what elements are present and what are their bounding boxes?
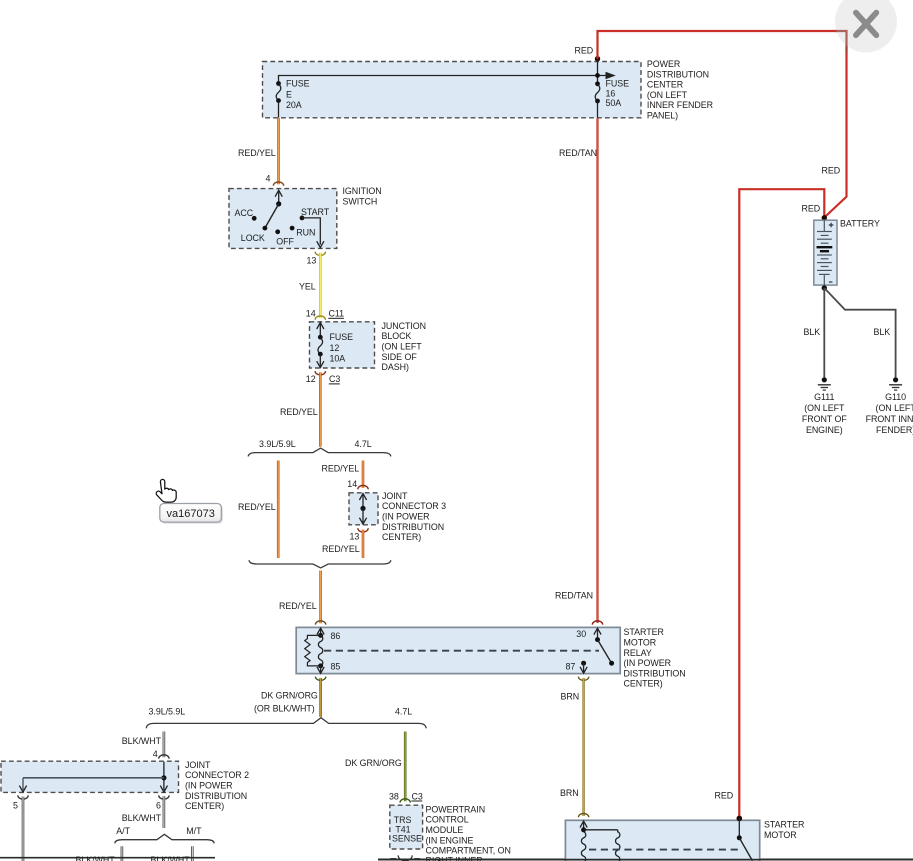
relay internal dashed divider: [324, 650, 599, 652]
svg-text:BLK/WHT: BLK/WHT: [122, 736, 162, 746]
svg-text:SWITCH: SWITCH: [343, 197, 378, 207]
svg-text:RED: RED: [822, 166, 841, 176]
wire: RED from PDC up over to battery positive: [598, 31, 847, 218]
wire: PDC internal bus from fuse E to fuse 16 with arrow: [279, 72, 616, 84]
label: ACC: [235, 208, 254, 218]
svg-text:86: 86: [331, 631, 341, 641]
svg-text:(IN ENGINE: (IN ENGINE: [426, 835, 474, 845]
svg-text:BLK: BLK: [804, 327, 821, 337]
label: BRN (lower): [560, 788, 579, 798]
label: RED/TAN (upper): [559, 148, 597, 158]
svg-text:38: 38: [389, 791, 399, 801]
svg-text:DK GRN/ORG: DK GRN/ORG: [345, 758, 402, 768]
merge brace (branches rejoin): [249, 560, 391, 568]
label: RED (left of battery): [802, 204, 821, 214]
junction block box: [310, 322, 375, 368]
svg-text:BLK/WHT: BLK/WHT: [151, 855, 191, 861]
svg-text:4: 4: [153, 749, 158, 759]
svg-text:IGNITION: IGNITION: [343, 186, 382, 196]
label: RUN: [296, 227, 315, 237]
svg-text:RED/YEL: RED/YEL: [238, 148, 276, 158]
label: BLK/WHT (below pin 6): [122, 813, 162, 823]
svg-text:BRN: BRN: [560, 788, 579, 798]
starter motor box: [565, 820, 759, 861]
ground G111: [802, 377, 847, 435]
pin 14 connector C11 (junction block): [306, 309, 344, 320]
label: IGNITION SWITCH: [343, 186, 382, 206]
svg-text:BLK/WHT: BLK/WHT: [122, 813, 162, 823]
pin 30 connector (starter motor relay): [592, 621, 602, 625]
svg-text:10A: 10A: [330, 354, 346, 364]
svg-text:4.7L: 4.7L: [355, 439, 372, 449]
svg-text:CONNECTOR 2: CONNECTOR 2: [185, 770, 249, 780]
close button: [835, 0, 897, 53]
joint connector 2 internal bus: [19, 762, 167, 792]
pin 5 connector (below joint connector 2): [13, 795, 28, 810]
fuse E 20A: [276, 79, 310, 118]
svg-text:14: 14: [306, 309, 316, 319]
svg-text:(IN POWER: (IN POWER: [185, 781, 232, 791]
svg-text:13: 13: [350, 532, 360, 542]
node: RED wire junction above PDC: [595, 56, 600, 61]
relay pin 85 exit arrow: [317, 666, 324, 673]
relay switch pin 30 to pin 87: [566, 628, 615, 673]
svg-text:85: 85: [331, 662, 341, 672]
svg-text:RED: RED: [715, 791, 734, 801]
wire: DK GRN/ORG relay pin 85 down to split brace: [319, 678, 322, 717]
starter motor contact switch: [737, 818, 753, 861]
pin 4 connector (joint connector 2): [153, 749, 169, 759]
svg-text:CENTER): CENTER): [185, 801, 224, 811]
joint connector 2 box: [1, 761, 179, 792]
svg-text:4.7L: 4.7L: [395, 707, 412, 717]
svg-text:RUN: RUN: [296, 227, 315, 237]
svg-text:FRONT OF: FRONT OF: [802, 414, 847, 424]
svg-text:RED: RED: [575, 46, 594, 56]
svg-text:SIDE OF: SIDE OF: [382, 352, 418, 362]
splice brace (3.9L/5.9L | 4.7L split): [248, 439, 391, 457]
svg-text:RED/YEL: RED/YEL: [238, 502, 276, 512]
svg-text:12: 12: [306, 374, 316, 384]
svg-text:LOCK: LOCK: [241, 233, 265, 243]
svg-text:A/T: A/T: [116, 826, 130, 836]
SEC-A: power distribution center: [263, 46, 713, 121]
label: RED (top of PDC): [575, 46, 594, 56]
ground G110: [866, 377, 913, 435]
svg-text:(ON LEFT: (ON LEFT: [647, 90, 688, 100]
wire: red drop into bus: [597, 59, 599, 84]
svg-text:CENTER): CENTER): [624, 679, 663, 689]
svg-text:G111: G111: [814, 392, 834, 402]
svg-text:BLK: BLK: [874, 327, 891, 337]
svg-text:DISTRIBUTION: DISTRIBUTION: [624, 668, 686, 678]
power distribution center box: [263, 62, 642, 118]
svg-text:(IN POWER: (IN POWER: [382, 512, 429, 522]
label: RED (right vertical): [822, 166, 841, 176]
svg-text:DISTRIBUTION: DISTRIBUTION: [382, 522, 444, 532]
pin 85 connector (below relay): [315, 677, 325, 681]
pin 4 connector (ignition switch): [266, 173, 284, 186]
svg-text:12: 12: [330, 343, 340, 353]
label: BATTERY: [840, 219, 880, 229]
wire: BLK battery to G111: [823, 288, 825, 377]
svg-text:PANEL): PANEL): [647, 111, 678, 121]
splice brace (3.9L/5.9L | 4.7L split below relay): [146, 707, 426, 729]
pin 13 connector (joint connector 3): [350, 528, 369, 541]
battery: [814, 220, 837, 285]
label: JOINT CONNECTOR 2 (IN POWER DISTRIBUTION CENTER): [185, 760, 249, 811]
svg-text:SENSE: SENSE: [392, 834, 422, 844]
svg-text:FENDER): FENDER): [876, 425, 913, 435]
wire: RED/YEL from fuse E to ignition switch: [277, 118, 280, 184]
svg-text:5: 5: [13, 800, 18, 810]
wire: bottom-left horizontal (next section, clipped): [0, 857, 215, 859]
svg-text:(OR BLK/WHT): (OR BLK/WHT): [254, 704, 315, 714]
cursor (hand pointer): [156, 479, 176, 502]
svg-text:FUSE: FUSE: [286, 79, 310, 89]
SEC-D: junction block / joint connector 3 / braces: [238, 309, 446, 624]
svg-text:30: 30: [576, 629, 586, 639]
svg-text:M/T: M/T: [186, 826, 202, 836]
svg-text:RED/YEL: RED/YEL: [322, 544, 360, 554]
svg-text:YEL: YEL: [299, 281, 316, 291]
wire: BRN relay pin 87 down to starter motor: [582, 678, 584, 816]
wire: RED/YEL 3.9L/5.9L branch: [277, 461, 280, 559]
wire: bottom horizontal (next section, clipped): [378, 858, 913, 860]
svg-text:20A: 20A: [286, 100, 302, 110]
svg-text:POWERTRAIN: POWERTRAIN: [426, 804, 486, 814]
svg-text:JOINT: JOINT: [382, 491, 408, 501]
svg-text:(ON LEFT: (ON LEFT: [804, 403, 845, 413]
label: RED (above starter motor): [715, 791, 734, 801]
svg-text:RED/YEL: RED/YEL: [280, 407, 318, 417]
label: RED/YEL: [238, 148, 276, 158]
svg-text:TRS: TRS: [394, 815, 412, 825]
wire: BLK/WHT A/T branch: [121, 846, 124, 861]
svg-text:E: E: [286, 89, 292, 99]
svg-text:RED/YEL: RED/YEL: [322, 463, 360, 473]
label: BLK (right): [874, 327, 891, 337]
label: STARTER MOTOR: [764, 820, 804, 840]
svg-text:50A: 50A: [606, 98, 622, 108]
svg-text:RED/TAN: RED/TAN: [559, 148, 597, 158]
ignition switch mechanism: [252, 190, 324, 247]
wire: RED/YEL 4.7L branch upper: [362, 461, 365, 488]
label: JOINT CONNECTOR 3 (IN POWER DISTRIBUTION CENTER): [382, 491, 446, 542]
svg-text:MOTOR: MOTOR: [624, 638, 657, 648]
svg-text:C11: C11: [329, 309, 345, 319]
label: STARTER MOTOR RELAY (IN POWER DISTRIBUTION CENTER): [624, 627, 686, 689]
label: START: [301, 207, 330, 217]
node: bus / fuse 16 junction: [595, 73, 600, 78]
svg-text:16: 16: [606, 88, 616, 98]
pin 12 connector C3 (junction block): [306, 371, 341, 384]
pin 87 connector (below relay): [578, 677, 588, 681]
SEC-E: starter relay row: [146, 621, 685, 816]
label: LOCK: [241, 233, 265, 243]
svg-text:DK GRN/ORG: DK GRN/ORG: [261, 691, 318, 701]
svg-text:CENTER: CENTER: [647, 80, 683, 90]
label: RED/YEL: [280, 407, 318, 417]
relay coil between pins 86 and 85: [317, 628, 340, 671]
svg-text:BLK/WHT: BLK/WHT: [76, 855, 116, 861]
svg-text:STARTER: STARTER: [764, 820, 804, 830]
SEC-G: PCM and starter motor: [345, 732, 913, 861]
label: RED/YEL (to relay): [279, 601, 317, 611]
node: RED wire at starter motor terminal: [737, 816, 743, 822]
pin 13 connector (ignition switch): [307, 252, 326, 266]
svg-text:13: 13: [307, 255, 317, 265]
label: RED/YEL (left branch): [238, 502, 276, 512]
svg-text:6: 6: [156, 800, 161, 810]
svg-text:MODULE: MODULE: [426, 825, 464, 835]
label: DK GRN/ORG (OR BLK/WHT): [254, 691, 318, 714]
wire: RED from battery positive down to starter motor: [739, 189, 824, 818]
wire: RED/YEL junction block to splice brace: [319, 372, 322, 446]
svg-text:CONTROL: CONTROL: [426, 815, 469, 825]
svg-text:STARTER: STARTER: [624, 627, 664, 637]
powertrain control module box: [390, 805, 423, 849]
svg-text:C3: C3: [329, 374, 340, 384]
wire: RED/YEL 4.7L branch lower: [362, 530, 365, 558]
label: RED/YEL (4.7L lower): [322, 544, 360, 554]
svg-text:4: 4: [266, 173, 271, 183]
svg-text:DISTRIBUTION: DISTRIBUTION: [647, 69, 709, 79]
starter solenoid windings: [580, 821, 620, 861]
label: BLK/WHT: [122, 736, 162, 746]
SEC-F: bottom left joint connector 2: [0, 732, 249, 861]
svg-text:FUSE: FUSE: [330, 332, 354, 342]
svg-text:BLOCK: BLOCK: [382, 331, 412, 341]
wire: BLK/WHT from pin 5 down: [22, 797, 25, 861]
ignition switch box: [229, 189, 337, 249]
svg-text:CENTER): CENTER): [382, 532, 421, 542]
wire: BLK/WHT from pin 6 to A/T-M/T brace: [163, 796, 166, 828]
svg-text:POWER: POWER: [647, 59, 680, 69]
tooltip va167073: [160, 504, 223, 524]
label: OFF: [276, 236, 294, 246]
svg-text:(IN POWER: (IN POWER: [624, 658, 671, 668]
label: POWER DISTRIBUTION CENTER (ON LEFT INNER FENDER PANEL): [647, 59, 713, 121]
label: RED/YEL (4.7L upper): [322, 463, 360, 473]
wire: bottom horizontal overlay (next section, clipped): [378, 859, 913, 861]
wire: DK GRN/ORG 4.7L branch to PCM: [404, 732, 407, 802]
svg-text:DASH): DASH): [382, 362, 409, 372]
node: battery positive: [822, 215, 827, 220]
svg-text:INNER FENDER: INNER FENDER: [647, 100, 713, 110]
svg-text:14: 14: [347, 479, 357, 489]
svg-text:BRN: BRN: [561, 692, 580, 702]
fuse 12 10A inside junction block: [317, 323, 353, 368]
label: YEL: [299, 281, 316, 291]
label: BLK/WHT (clipped at bottom, M/T): [151, 855, 191, 861]
splice brace (A/T | M/T split): [115, 826, 214, 843]
svg-text:(ON LEFT: (ON LEFT: [382, 342, 423, 352]
SEC-C: ignition switch column: [229, 118, 598, 623]
wire: BLK/WHT M/T branch: [191, 846, 194, 861]
svg-text:RED/TAN: RED/TAN: [555, 591, 593, 601]
ground connector below PCM (clipped): [390, 855, 420, 861]
starter motor relay box: [296, 627, 620, 673]
svg-text:87: 87: [566, 662, 576, 672]
svg-text:FRONT INNER: FRONT INNER: [866, 414, 913, 424]
label: RED/TAN (lower): [555, 591, 593, 601]
fuse 16 50A: [595, 79, 629, 118]
pin 86 connector (starter motor relay): [315, 621, 325, 625]
svg-text:3.9L/5.9L: 3.9L/5.9L: [259, 439, 296, 449]
label: BRN (upper): [561, 692, 580, 702]
svg-text:OFF: OFF: [276, 236, 294, 246]
pin 38 connector C3 (PCM): [389, 791, 423, 802]
svg-text:BATTERY: BATTERY: [840, 219, 880, 229]
node: fuse E top junction: [276, 81, 281, 86]
wire: YEL ignition to junction block: [319, 253, 322, 318]
svg-text:COMPARTMENT, ON: COMPARTMENT, ON: [426, 846, 511, 856]
wire: RED/TAN from fuse 16 to starter relay pin 30: [596, 118, 598, 623]
SEC-B: red battery feed wires, close button, battery, grounds: [598, 0, 913, 818]
svg-text:C3: C3: [412, 791, 423, 801]
svg-text:3.9L/5.9L: 3.9L/5.9L: [149, 707, 186, 717]
relay resistor (parallel with coil): [305, 635, 321, 666]
wire: RED/YEL splice to starter relay pin 86: [319, 571, 322, 624]
svg-text:RED/YEL: RED/YEL: [279, 601, 317, 611]
svg-text:MOTOR: MOTOR: [764, 830, 797, 840]
label: TRS T41 SENSE (PCM pin): [392, 815, 422, 843]
svg-text:JUNCTION: JUNCTION: [382, 321, 427, 331]
svg-text:ACC: ACC: [235, 208, 254, 218]
svg-text:JOINT: JOINT: [185, 760, 211, 770]
svg-text:START: START: [301, 207, 330, 217]
starter motor internal dashed divider: [589, 849, 742, 851]
label: JUNCTION BLOCK (ON LEFT SIDE OF DASH): [382, 321, 427, 372]
label: BLK (left): [804, 327, 821, 337]
svg-text:G110: G110: [885, 392, 906, 402]
svg-text:FUSE: FUSE: [606, 79, 630, 89]
pin 6 connector (below joint connector 2): [156, 795, 169, 810]
svg-text:ENGINE): ENGINE): [806, 425, 843, 435]
pin 14 connector (joint connector 3): [347, 479, 368, 489]
joint connector 3 box: [349, 493, 378, 525]
svg-text:CONNECTOR 3: CONNECTOR 3: [382, 501, 446, 511]
label: POWERTRAIN CONTROL MODULE (IN ENGINE COMPARTMENT, ON RIGHT INNER: [426, 804, 511, 861]
wire: BLK battery to G110: [824, 288, 895, 377]
svg-text:va167073: va167073: [167, 508, 215, 520]
svg-text:RELAY: RELAY: [624, 648, 652, 658]
SEC-H: cursor and tooltip: [156, 479, 223, 523]
label: DK GRN/ORG (PCM branch): [345, 758, 402, 768]
pin connector (starter motor solenoid): [578, 814, 588, 818]
joint connector 3 internal bus: [359, 494, 366, 524]
svg-text:(ON LEFT: (ON LEFT: [876, 403, 913, 413]
svg-text:RED: RED: [802, 204, 821, 214]
svg-text:DISTRIBUTION: DISTRIBUTION: [185, 791, 247, 801]
node: battery negative: [822, 285, 827, 290]
label: BLK/WHT (clipped at bottom, A/T): [76, 855, 116, 861]
wire: BLK/WHT 3.9L/5.9L branch to joint connector 2: [163, 732, 166, 758]
